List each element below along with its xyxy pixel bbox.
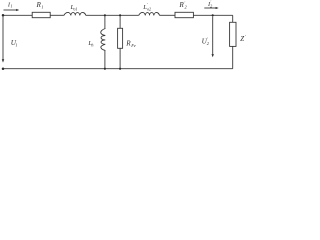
- svg-text:1: 1: [11, 4, 13, 9]
- svg-text:Fe: Fe: [130, 43, 136, 48]
- inductor L'σ2 body: [139, 12, 160, 15]
- inductor Lσ1 body: [64, 12, 86, 15]
- svg-text:Z: Z: [240, 35, 244, 43]
- svg-text:1: 1: [41, 4, 43, 9]
- node dot: bottom-left terminal: [2, 67, 5, 70]
- wire load bottom lead: [232, 46, 234, 68]
- svg-text:h: h: [91, 43, 93, 48]
- resistor R1 body: [32, 12, 50, 17]
- wire top rail between L'σ2 and R'2: [160, 14, 176, 16]
- voltage arrow U'2 shaft: [212, 17, 214, 55]
- voltage arrow U1 shaft: [2, 17, 4, 60]
- wire RFe branch bottom lead: [119, 48, 121, 68]
- arrowhead of U1: [2, 59, 4, 62]
- resistor R'2 body: [175, 12, 193, 17]
- svg-text:2: 2: [210, 3, 212, 8]
- wire load top lead: [232, 15, 234, 22]
- arrowhead of I'2: [216, 7, 219, 9]
- node E: U'2 top junction: [212, 14, 214, 16]
- wire Lh branch top lead: [104, 15, 106, 28]
- node A: Lh top junction: [104, 14, 106, 16]
- svg-text:σ2: σ2: [147, 7, 151, 12]
- svg-text:2: 2: [185, 4, 188, 9]
- current arrow I1 shaft: [4, 9, 17, 11]
- load impedance Z' body: [230, 22, 236, 46]
- wire RFe branch top lead: [119, 15, 121, 28]
- resistor RFe body (vertical): [118, 28, 123, 48]
- arrowhead of I1: [16, 9, 19, 11]
- wire top rail between Lσ1 and L'σ2: [86, 14, 139, 16]
- wire top rail between R1 and Lσ1: [50, 14, 64, 16]
- wire bottom rail: [3, 68, 233, 70]
- node B: RFe top junction: [119, 14, 121, 16]
- wire top rail right of R'2 to load corner: [193, 14, 232, 16]
- current arrow I'2 shaft: [204, 7, 216, 9]
- wire Lh branch bottom lead: [104, 50, 106, 68]
- wire top rail left: [3, 14, 32, 16]
- svg-text:1: 1: [15, 42, 17, 47]
- svg-text:σ1: σ1: [74, 6, 78, 11]
- svg-text:2: 2: [207, 41, 210, 46]
- inductor Lh body (vertical): [101, 29, 106, 51]
- node D: RFe bottom junction: [119, 68, 121, 70]
- arrowhead of U'2: [212, 54, 214, 57]
- svg-text:′: ′: [245, 34, 247, 39]
- node dot: top-left terminal: [2, 14, 5, 16]
- node C: Lh bottom junction: [104, 68, 106, 70]
